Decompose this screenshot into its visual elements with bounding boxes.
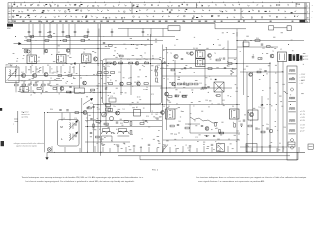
trimmer capacitors gang [74, 123, 76, 125]
svg-text:4k7: 4k7 [21, 72, 24, 74]
aerial terminal marks [14, 118, 18, 120]
mains dropper resistor [255, 40, 260, 42]
zigzag coupling path [190, 117, 218, 123]
below detector resistor [217, 95, 221, 97]
vertical wire x247 [246, 72, 248, 152]
wire y68 right [160, 68, 237, 70]
capacitor bank outline [246, 144, 257, 153]
switch bank row S3 [8, 14, 306, 20]
svg-text:C75: C75 [195, 137, 198, 139]
component row wire y75 [8, 75, 110, 77]
resistor chain R20-R22 [109, 83, 113, 85]
vertical bus left pair [97, 24, 99, 153]
if transformer S4 lower [196, 59, 206, 67]
diode row D1 D2 [206, 135, 207, 136]
wire y49 right [163, 49, 237, 51]
fuse box right edge [308, 144, 313, 149]
svg-text:T12: T12 [122, 109, 125, 111]
fuse symbol [243, 42, 249, 47]
wire y147 right [240, 146, 287, 148]
gang arrow L [69, 133, 77, 141]
svg-text:100: 100 [178, 121, 181, 123]
wire y120 audio [85, 120, 162, 122]
svg-text:R45: R45 [243, 69, 246, 71]
component value labels [10, 32, 305, 151]
switch contacts row 3 [13, 15, 299, 18]
driver transistor T9 [270, 54, 274, 58]
transistor can circle [27, 50, 30, 53]
svg-text:C84: C84 [283, 127, 286, 129]
module top parts [103, 42, 105, 44]
ratio detector box [214, 82, 224, 92]
junction dots centre [97, 62, 100, 65]
svg-text:1k: 1k [146, 87, 148, 89]
svg-text:u6: u6 [30, 94, 32, 96]
if transformer S4 upper [196, 51, 206, 59]
mixer cluster transistor T15 [60, 87, 64, 91]
svg-text:S1: S1 [26, 52, 28, 54]
svg-text:100: 100 [145, 59, 148, 61]
if transformer S5 [166, 109, 176, 119]
capacitor C90 [261, 104, 263, 106]
gang arrow M [69, 122, 77, 130]
svg-text:S3: S3 [83, 52, 85, 54]
mid caps parts [163, 62, 165, 64]
svg-text:220: 220 [259, 69, 262, 71]
resistor R80 module top [120, 55, 124, 57]
af components row [96, 121, 100, 123]
chain transistor TB [135, 62, 139, 66]
supply wire top C [18, 44, 152, 46]
svg-text:A1: A1 [136, 106, 138, 109]
svg-text:C35: C35 [199, 83, 202, 85]
chain transistor TA [113, 62, 117, 66]
page edge mark upper [0, 108, 2, 111]
svg-text:R1: R1 [16, 61, 18, 63]
resistor chain R17-R19 [98, 72, 102, 74]
vertical x228 [227, 41, 229, 64]
if amp transistor T3 [93, 57, 97, 61]
driver chain parts [258, 58, 262, 60]
wire y124 stub [185, 123, 200, 125]
svg-text:4u7: 4u7 [227, 66, 230, 68]
svg-text:T9: T9 [272, 51, 274, 53]
pilot lamp [47, 148, 51, 152]
supply junctions [236, 39, 239, 42]
svg-text:R40: R40 [256, 38, 259, 40]
svg-text:R81: R81 [222, 100, 225, 102]
vertical wire x79 [79, 64, 81, 88]
wire y140 centre [163, 139, 240, 141]
vertical wire x131 [130, 65, 132, 95]
cluster left of volume [87, 107, 91, 109]
dial indicator box [168, 26, 180, 31]
svg-text:0.1: 0.1 [128, 78, 130, 80]
svg-text:S2: S2 [58, 52, 60, 54]
capacitor C61 [69, 86, 71, 88]
svg-text:against chassis (no signal): against chassis (no signal) [16, 145, 37, 148]
resistor R50 [220, 132, 224, 134]
interstage transformer arcs [102, 131, 112, 134]
vertical x190 [189, 105, 191, 134]
small components under S5 [170, 125, 174, 127]
resistor R4 [22, 84, 26, 86]
svg-text:56k: 56k [137, 81, 140, 83]
driver block box [134, 110, 141, 117]
trimmer C11 [74, 62, 76, 64]
dial scale tick marks [15, 2, 293, 3]
column bottom fuse box [288, 142, 295, 147]
resistor R10 [68, 75, 72, 77]
rail capacitor symbols [102, 144, 271, 147]
output transformer box A [103, 129, 110, 132]
capacitor C5 [28, 83, 30, 85]
fm aerial input circle [24, 49, 28, 53]
wire y92 [21, 91, 110, 93]
svg-text:C25: C25 [157, 65, 160, 67]
vertical x278 right [277, 62, 279, 153]
capacitor C71 [264, 69, 266, 71]
coupling capacitors top row [28, 32, 145, 33]
chassis ground rail [47, 151, 305, 153]
svg-text:AC128: AC128 [303, 58, 308, 61]
af transistor T11 [83, 111, 87, 115]
switch contacts row 1 [11, 4, 296, 8]
transformer windings [289, 69, 295, 72]
switch bank row S2 [8, 8, 306, 14]
svg-text:R12: R12 [118, 55, 121, 57]
svg-text:a1: a1 [9, 21, 11, 23]
svg-text:L5: L5 [63, 118, 65, 120]
svg-text:C50: C50 [90, 103, 93, 105]
switch contacts row 2 [12, 9, 296, 13]
af driver box [278, 52, 287, 62]
band 4 label dashes [14, 20, 293, 23]
resistor R24 [91, 89, 95, 91]
svg-text:S4: S4 [193, 48, 195, 50]
wire y76 centre [162, 75, 237, 77]
if amp transistor T5 [174, 54, 178, 58]
supply wire top B [24, 40, 163, 42]
wave band label block MWL [7, 24, 13, 27]
supply wire top B right [237, 40, 304, 42]
bias capacitor [201, 125, 203, 127]
svg-text:T7: T7 [167, 79, 169, 81]
speaker matching wires [101, 136, 103, 142]
ground return rail inner [140, 159, 298, 161]
band to circuit drop wires [29, 24, 237, 37]
svg-text:FIG. 2: FIG. 2 [152, 170, 159, 172]
detector wire y88 [160, 87, 232, 89]
svg-text:T4: T4 [65, 83, 67, 85]
volume control VR1 [102, 112, 107, 117]
af wire y126 [85, 126, 162, 128]
rf transistor T16 [44, 49, 48, 53]
wire y58 far right [228, 57, 237, 59]
svg-text:R79: R79 [151, 94, 154, 96]
on-off switch box on rail [217, 144, 225, 152]
resistor R60 [67, 91, 71, 93]
svg-text:sans signal d'entree. Le commu: sans signal d'entree. Le commutateur est… [198, 180, 265, 183]
band dark clusters [14, 4, 300, 19]
capacitor C25 [105, 87, 107, 89]
transistor T13 [161, 111, 165, 115]
trim resistor R27 [37, 88, 41, 90]
switch bank row S4 [8, 20, 306, 23]
bias resistor vertical A [215, 123, 217, 127]
right audio caps [240, 123, 242, 125]
svg-text:T5: T5 [170, 53, 172, 55]
wire y92 ticks [24, 90, 43, 92]
rail slant switch [163, 145, 168, 151]
svg-text:R8: R8 [47, 65, 49, 67]
bias resistor vertical B [219, 130, 221, 134]
svg-text:R55: R55 [146, 116, 149, 118]
svg-text:a1: a1 [9, 11, 11, 13]
vertical wire x121 [120, 60, 122, 95]
svg-text:R68: R68 [174, 134, 177, 136]
svg-text:S6: S6 [232, 106, 234, 108]
svg-text:a1: a1 [9, 17, 11, 19]
detector diode row components [168, 96, 172, 98]
svg-text:C80: C80 [205, 100, 208, 102]
s6 lower resistor [234, 124, 236, 128]
svg-text:S8: S8 [228, 139, 230, 141]
resistor R6 [34, 84, 38, 86]
padder capacitor C26 [69, 91, 71, 93]
volume arrow [83, 99, 92, 105]
svg-text:25u: 25u [107, 66, 110, 68]
mixer output box [75, 88, 85, 93]
vertical x175 [174, 60, 176, 88]
aerial coupling wire [17, 111, 19, 133]
svg-text:C78: C78 [110, 96, 113, 98]
switch common rail wire [14, 23, 216, 25]
svg-text:R30: R30 [219, 58, 222, 60]
svg-text:Les tensions indiquees dans ce: Les tensions indiquees dans ce schema so… [196, 176, 307, 179]
svg-text:d 8.4V: d 8.4V [300, 120, 306, 122]
svg-text:C4: C4 [31, 65, 33, 67]
detector transistor T6 [208, 54, 212, 58]
vertical resistors x131 [130, 122, 132, 126]
fm aerial arrow [14, 43, 20, 45]
vertical x283 right [282, 62, 284, 153]
svg-text:50u: 50u [266, 124, 269, 126]
vertical wire x252 [252, 72, 254, 152]
zigzag resistor R85 [230, 68, 233, 75]
output transistor T14 box [248, 110, 258, 120]
resistor chain R12-R16 [107, 62, 111, 64]
if module boundary box [103, 59, 162, 104]
agc lower resistors [175, 95, 179, 97]
svg-text:C70: C70 [74, 118, 77, 120]
sw band end dark cell [300, 20, 306, 23]
svg-text:— 127V: — 127V [299, 77, 306, 79]
svg-text:T3: T3 [97, 65, 99, 67]
svg-text:T14: T14 [258, 107, 261, 109]
vertical wire x262 [261, 96, 263, 152]
vertical x205 [204, 66, 206, 88]
vertical wire x150 [150, 34, 152, 112]
resistor R30 [202, 87, 206, 89]
svg-text:C9: C9 [62, 65, 64, 67]
svg-text:— 220V: — 220V [299, 74, 306, 76]
if transistor T6b [190, 52, 194, 56]
ground rail stub left [46, 152, 48, 157]
mains transformer T10 frame [287, 66, 297, 160]
vertical wire x270 [269, 62, 271, 152]
agc resistor chain [178, 83, 182, 85]
svg-text:D2: D2 [206, 128, 208, 130]
svg-text:VR1: VR1 [97, 109, 100, 111]
svg-text:U1: U1 [280, 49, 282, 51]
if transformer S2 [57, 55, 67, 64]
capacitor C8 [47, 83, 49, 85]
svg-text:C82: C82 [238, 121, 241, 123]
svg-text:C58: C58 [188, 124, 191, 126]
if transformer S3 [82, 54, 92, 63]
rf transistor T17 [66, 49, 70, 53]
svg-text:a 6.1V: a 6.1V [300, 111, 306, 113]
parts on x93 [90, 118, 92, 120]
regulator transistor T18 [249, 73, 253, 77]
chain transistor TD [137, 82, 141, 86]
vertical wire x87 [87, 113, 89, 153]
ground return rail [118, 155, 290, 157]
switch contacts row 4 [12, 20, 244, 23]
coupling stack parts [106, 104, 111, 107]
components on wire y68 [184, 66, 186, 68]
svg-text:a1: a1 [9, 5, 11, 7]
winding junction diamonds [290, 88, 294, 92]
osc transistor T4 [83, 81, 87, 85]
af transistor T12 [116, 111, 120, 115]
wire y86 left [50, 85, 80, 87]
signal path wire y63 [8, 63, 270, 65]
svg-text:MWL: MWL [7, 28, 11, 30]
svg-text:het chassis zonder ingangssign: het chassis zonder ingangssignaal. De sc… [26, 180, 135, 183]
junction dots scatter [15, 36, 291, 153]
vertical x222 [221, 92, 223, 105]
band divider ticks [131, 3, 133, 14]
mixer transistor T2 [33, 74, 37, 78]
svg-text:a: a [13, 124, 14, 126]
detector diode D4 [215, 79, 216, 80]
band end cell column [306, 3, 310, 23]
wire stubs tuning [61, 113, 63, 121]
small box above volume [109, 98, 116, 102]
vertical wire x243 [243, 41, 245, 96]
resistor R3 [15, 84, 19, 86]
resistor R62 [53, 88, 57, 90]
svg-text:AC127: AC127 [303, 55, 308, 58]
if transformer S6 [230, 109, 240, 119]
svg-text:cap 100p: cap 100p [21, 117, 28, 119]
vertical wire x106 [105, 59, 107, 127]
tone control VR2 [110, 117, 114, 121]
svg-text:C60: C60 [250, 116, 253, 118]
resistor R9 [58, 75, 62, 77]
front end wire y80 [8, 80, 62, 82]
osc coil box [20, 87, 29, 92]
bias components right [243, 119, 245, 121]
svg-text:C20: C20 [118, 72, 121, 74]
coupling electrolytic C40 [108, 109, 113, 112]
reference designators [16, 38, 286, 141]
svg-text:1k8: 1k8 [155, 114, 158, 116]
svg-text:220: 220 [37, 72, 40, 74]
page edge mark lower [1, 141, 4, 146]
vertical wire x162 [162, 45, 164, 153]
svg-text:R65: R65 [120, 123, 123, 125]
centre small caps [156, 117, 158, 119]
small components near T6 [216, 59, 220, 61]
svg-text:Toestel ontworpen voor omroep-: Toestel ontworpen voor omroep-ontvangst … [22, 176, 144, 179]
resistors on supply wire B [27, 40, 31, 42]
svg-text:R28: R28 [40, 86, 43, 88]
capacitor C15 [154, 69, 156, 71]
svg-text:47k: 47k [127, 59, 130, 61]
tuning small caps on wire [59, 109, 61, 111]
vertical wire x166 [166, 47, 168, 130]
junction dots at bus crossings [98, 63, 99, 64]
wire y86 [80, 85, 162, 87]
supply wire y47 right [237, 46, 278, 48]
supply wire top D [22, 48, 110, 50]
svg-text:D1: D1 [210, 79, 212, 81]
if transformer S1a [27, 55, 37, 64]
svg-text:T6: T6 [214, 53, 216, 55]
vertical wire x93 [93, 105, 95, 153]
agc transistor T7 [172, 82, 176, 86]
svg-text:2k2: 2k2 [136, 59, 139, 61]
tuning wire y112 [47, 112, 162, 114]
chain transistor TC [120, 82, 124, 86]
vertical wire x81 [81, 98, 83, 152]
wire y104 [93, 104, 240, 106]
rail contact components [269, 26, 274, 30]
tuning gang box [58, 120, 80, 147]
resistor R70 [257, 71, 261, 73]
supply wire y72 right [240, 71, 283, 73]
vertical resistors x156 [156, 66, 158, 70]
output transformer box B [119, 129, 127, 132]
resistors on supply wire A [30, 36, 34, 38]
rf amp transistor T1 [22, 74, 26, 78]
svg-text:10u: 10u [113, 106, 116, 108]
svg-text:e 3.2V: e 3.2V [300, 125, 306, 127]
audio bottom-left parts [90, 132, 92, 134]
svg-text:b 1.2V: b 1.2V [300, 114, 306, 116]
supply wire top A [24, 36, 175, 38]
resistor R7 [42, 84, 46, 86]
capacitor C31 [207, 86, 209, 88]
decoupling components on ground rail [52, 146, 299, 152]
osc transistor T2b [44, 73, 48, 77]
svg-text:1n: 1n [68, 72, 70, 74]
switch wiper symbol [50, 21, 53, 23]
af driver transistor T19 [205, 127, 209, 131]
vertical wire x44 [44, 113, 46, 153]
capacitor C14 [104, 67, 106, 69]
electrolytic C60 [269, 129, 273, 133]
svg-text:R60: R60 [50, 109, 53, 111]
wire stubs front end [16, 37, 74, 93]
wire y133 right [190, 132, 240, 134]
switch bank row S1 [8, 3, 306, 8]
vertical wire x237 [236, 32, 238, 152]
rectifier block dark cluster [289, 54, 292, 61]
